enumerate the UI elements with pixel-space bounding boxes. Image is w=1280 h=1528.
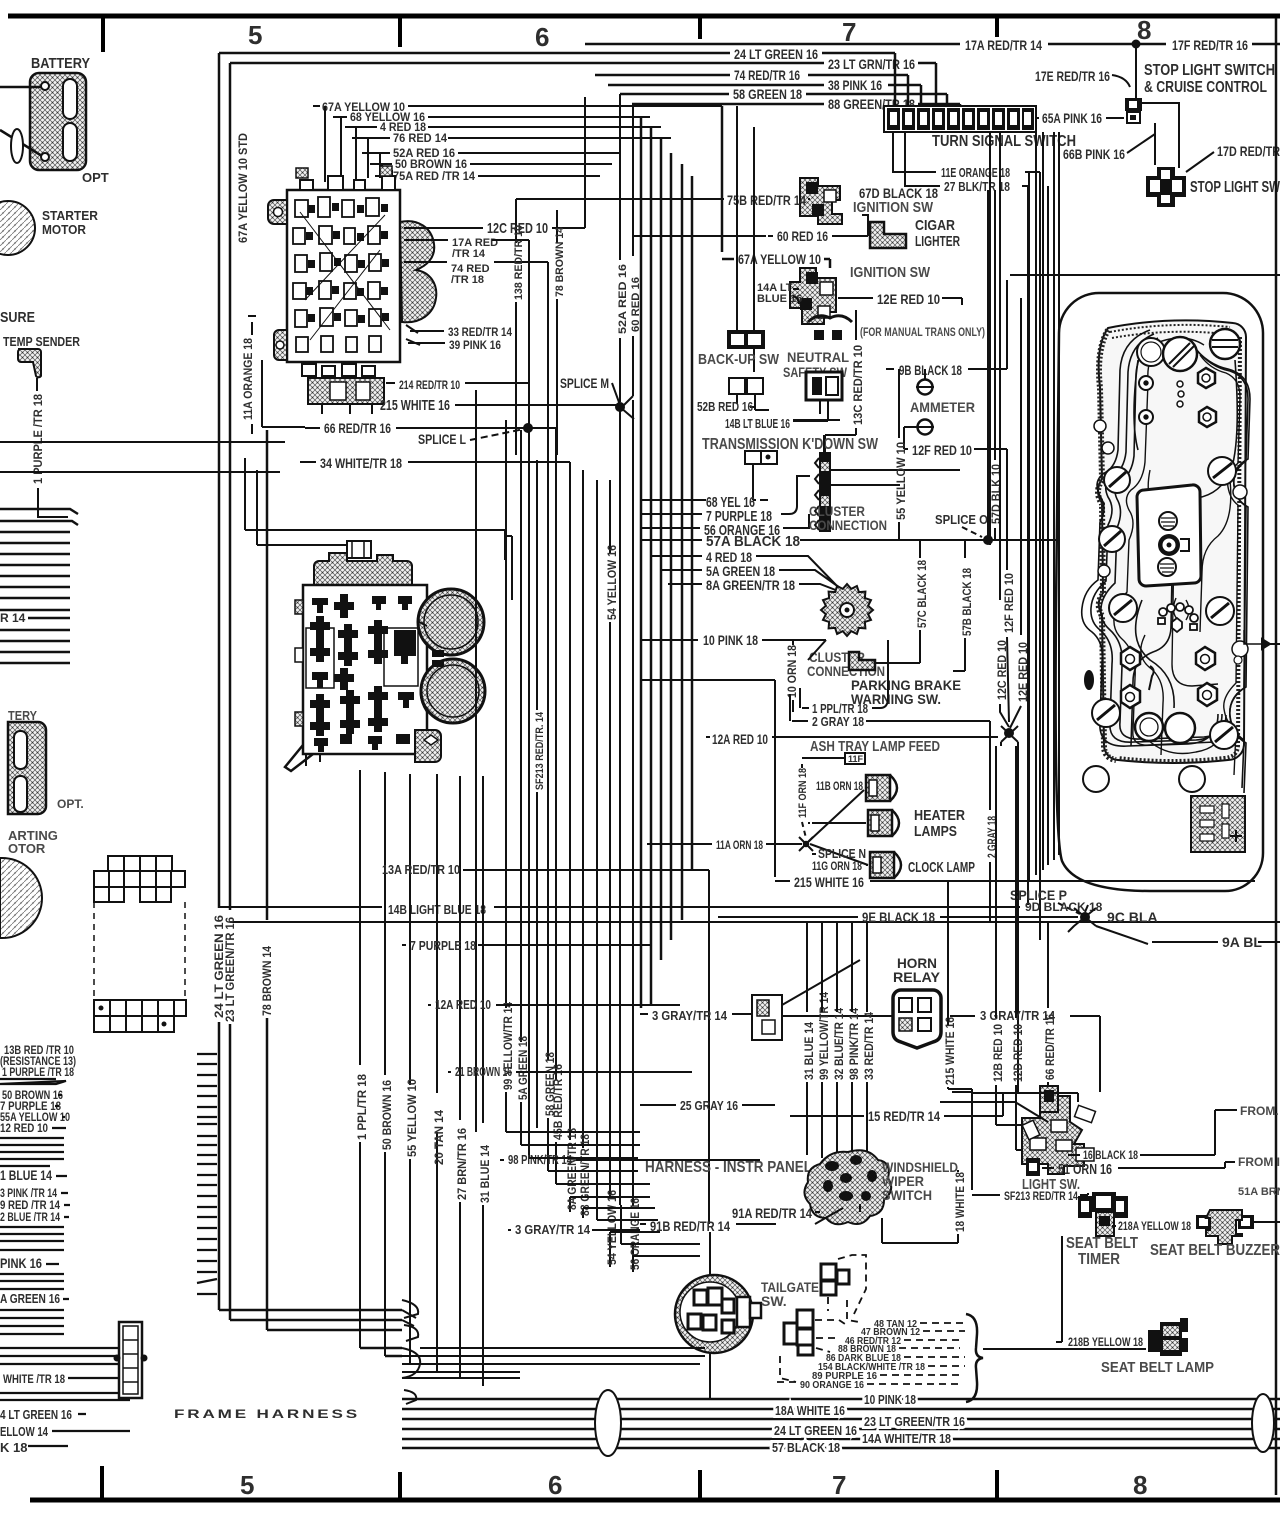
svg-text:OPT.: OPT. xyxy=(57,797,84,811)
svg-text:25 GRAY 16: 25 GRAY 16 xyxy=(680,1098,738,1113)
svg-text:12A RED 10: 12A RED 10 xyxy=(712,731,768,747)
svg-text:57 BLACK 18: 57 BLACK 18 xyxy=(772,1440,840,1455)
svg-text:6: 6 xyxy=(535,22,549,52)
left tabs xyxy=(295,600,303,614)
svg-text:SURE: SURE xyxy=(0,309,35,326)
svg-text:8: 8 xyxy=(1137,15,1151,45)
bezel outer xyxy=(1056,293,1263,891)
svg-text:5: 5 xyxy=(240,1470,254,1500)
svg-text:PINK 16: PINK 16 xyxy=(0,1255,42,1271)
svg-text:27 BRN/TR 16: 27 BRN/TR 16 xyxy=(455,1128,469,1200)
svg-text:20 TAN 14: 20 TAN 14 xyxy=(432,1110,446,1165)
svg-text:38 PINK 16: 38 PINK 16 xyxy=(828,77,882,93)
svg-text:FROM I: FROM I xyxy=(1238,1155,1280,1169)
svg-text:14A WHITE/TR 18: 14A WHITE/TR 18 xyxy=(862,1431,951,1446)
svg-text:CLOCK LAMP: CLOCK LAMP xyxy=(908,859,975,876)
svg-text:AMMETER: AMMETER xyxy=(910,399,975,415)
svg-text:3 GRAY/TR 14: 3 GRAY/TR 14 xyxy=(515,1222,591,1237)
svg-text:57B BLACK 18: 57B BLACK 18 xyxy=(960,568,974,636)
svg-text:SW.: SW. xyxy=(761,1293,787,1309)
svg-text:7: 7 xyxy=(842,17,856,47)
svg-text:12 RED 10: 12 RED 10 xyxy=(0,1121,48,1135)
fuse box 1 body xyxy=(287,190,400,362)
svg-text:OPT: OPT xyxy=(82,170,109,185)
svg-text:SPLICE L: SPLICE L xyxy=(418,431,466,447)
left ear xyxy=(268,200,287,224)
svg-text:1 BLUE 14: 1 BLUE 14 xyxy=(0,1167,52,1183)
svg-text:138 RED/TR 10: 138 RED/TR 10 xyxy=(513,225,525,300)
svg-text:215 WHITE 16: 215 WHITE 16 xyxy=(943,1017,957,1085)
clamp braces xyxy=(402,1300,420,1404)
svg-text:57A BLACK 18: 57A BLACK 18 xyxy=(706,533,800,550)
svg-text:66 RED/TR 16: 66 RED/TR 16 xyxy=(324,420,391,436)
svg-text:12E RED 10: 12E RED 10 xyxy=(877,291,940,307)
light switch xyxy=(1022,1086,1096,1176)
svg-text:78 BROWN 14: 78 BROWN 14 xyxy=(260,946,274,1016)
svg-text:32 BLUE/TR 14: 32 BLUE/TR 14 xyxy=(832,1008,846,1080)
upper mid verticals going down xyxy=(476,330,633,1272)
svg-text:STOP LIGHT SW: STOP LIGHT SW xyxy=(1190,179,1280,196)
svg-text:218B YELLOW 18: 218B YELLOW 18 xyxy=(1068,1335,1143,1349)
svg-text:55 YELLOW 10: 55 YELLOW 10 xyxy=(405,1079,419,1157)
trapezoid panel xyxy=(1137,485,1201,586)
svg-text:8: 8 xyxy=(1133,1470,1147,1500)
svg-text:31 BLUE 14: 31 BLUE 14 xyxy=(478,1145,492,1203)
svg-text:24 LT GREEN 16: 24 LT GREEN 16 xyxy=(734,46,818,62)
svg-text:BATTERY: BATTERY xyxy=(31,55,90,72)
seat belt buzzer xyxy=(1196,1210,1254,1244)
svg-text:11F: 11F xyxy=(848,754,864,764)
svg-text:60 RED 16: 60 RED 16 xyxy=(777,228,828,244)
svg-text:214 RED/TR 10: 214 RED/TR 10 xyxy=(399,378,460,392)
svg-text:58 GREEN 18: 58 GREEN 18 xyxy=(733,86,802,102)
bottom connector of fuse box 1 xyxy=(302,364,375,376)
svg-text:17E RED/TR 16: 17E RED/TR 16 xyxy=(1035,68,1110,84)
svg-text:SPLICE O: SPLICE O xyxy=(935,512,988,527)
tailgate switch xyxy=(675,1275,753,1353)
svg-text:10 PINK 18: 10 PINK 18 xyxy=(864,1392,916,1407)
svg-text:8A GREEN/TR 18: 8A GREEN/TR 18 xyxy=(706,577,795,593)
svg-text:K 18: K 18 xyxy=(0,1440,27,1455)
svg-text:FROM.: FROM. xyxy=(1240,1104,1279,1118)
left harness lines A xyxy=(0,509,78,663)
bottom-left ear xyxy=(274,330,287,360)
svg-text:SF213 RED/TR 14: SF213 RED/TR 14 xyxy=(1004,1189,1078,1203)
left vertical bundle from top labels xyxy=(641,117,692,1008)
wire 1 PURPLE/TR 18 xyxy=(36,378,38,391)
svg-text:1 PPL/TR 18: 1 PPL/TR 18 xyxy=(355,1074,369,1140)
svg-text:52B RED 16: 52B RED 16 xyxy=(697,399,753,414)
svg-text:9C BLA: 9C BLA xyxy=(1107,909,1158,925)
top gauges xyxy=(1092,329,1248,749)
svg-text:23 LT GREEN/TR 16: 23 LT GREEN/TR 16 xyxy=(223,917,237,1022)
TSS-to-cluster vertical bundle xyxy=(990,132,1059,880)
svg-text:SPLICE M: SPLICE M xyxy=(560,375,609,391)
svg-text:9A BL: 9A BL xyxy=(1222,934,1262,950)
svg-text:1 PURPLE /TR 18: 1 PURPLE /TR 18 xyxy=(31,394,45,484)
svg-text:HARNESS - INSTR PANEL: HARNESS - INSTR PANEL xyxy=(645,1159,812,1176)
svg-text:91A RED/TR 14: 91A RED/TR 14 xyxy=(732,1205,812,1221)
svg-text:78 BROWN 14: 78 BROWN 14 xyxy=(554,226,566,297)
svg-text:12E RED 10: 12E RED 10 xyxy=(1016,642,1030,702)
svg-text:67A YELLOW 10 STD: 67A YELLOW 10 STD xyxy=(236,133,250,243)
right stubs column xyxy=(197,1054,217,1294)
svg-text:54 YELLOW 16: 54 YELLOW 16 xyxy=(605,1190,619,1265)
svg-text:66B PINK 16: 66B PINK 16 xyxy=(1063,146,1125,162)
svg-text:/TR 14: /TR 14 xyxy=(452,248,486,260)
svg-text:55 YELLOW 10: 55 YELLOW 10 xyxy=(894,442,908,520)
svg-text:34 WHITE/TR 18: 34 WHITE/TR 18 xyxy=(320,455,402,471)
heater lamps xyxy=(866,775,901,878)
interior sub-boxes xyxy=(306,628,334,688)
svg-text:65A PINK 16: 65A PINK 16 xyxy=(1042,110,1102,126)
svg-text:STARTER: STARTER xyxy=(42,208,99,223)
svg-text:75A RED /TR 14: 75A RED /TR 14 xyxy=(393,169,475,183)
svg-text:57C BLACK 18: 57C BLACK 18 xyxy=(915,560,929,628)
lower hexes + circles xyxy=(1083,647,1217,792)
inner plate hatch edge band xyxy=(1098,325,1240,761)
arrow right xyxy=(1262,639,1280,649)
page border bottom xyxy=(30,1498,1280,1503)
svg-text:98 PINK/TR 14: 98 PINK/TR 14 xyxy=(847,1008,861,1080)
svg-text:R 14: R 14 xyxy=(0,611,26,625)
bottom right ear xyxy=(415,730,441,762)
svg-text:76 RED 14: 76 RED 14 xyxy=(393,131,447,145)
svg-text:11F ORN 18: 11F ORN 18 xyxy=(797,768,809,818)
svg-text:23 LT GRN/TR 16: 23 LT GRN/TR 16 xyxy=(828,56,915,72)
svg-text:99 YELLOW/TR 14: 99 YELLOW/TR 14 xyxy=(817,992,831,1080)
svg-text:ASH TRAY LAMP FEED: ASH TRAY LAMP FEED xyxy=(810,738,940,755)
stop light switch component xyxy=(1146,167,1186,207)
svg-text:13A RED/TR 10: 13A RED/TR 10 xyxy=(382,862,460,877)
svg-text:CIGAR: CIGAR xyxy=(915,217,955,234)
svg-text:3 GRAY/TR 14: 3 GRAY/TR 14 xyxy=(652,1008,728,1023)
svg-text:18A WHITE 16: 18A WHITE 16 xyxy=(775,1403,845,1418)
turn signal switch block xyxy=(884,106,1036,132)
parking brake warning sw xyxy=(849,652,875,670)
svg-text:17F RED/TR 16: 17F RED/TR 16 xyxy=(1172,37,1248,53)
svg-text:1 PURPLE /TR 18: 1 PURPLE /TR 18 xyxy=(2,1065,74,1079)
svg-text:LIGHTER: LIGHTER xyxy=(915,233,960,250)
top tabs xyxy=(300,176,395,190)
svg-text:BLUE 16: BLUE 16 xyxy=(757,293,802,305)
svg-text:11A ORN 18: 11A ORN 18 xyxy=(716,838,763,852)
tailgate connector A xyxy=(821,1264,849,1295)
seat belt lamp xyxy=(710,1232,1146,1399)
cigar lighter xyxy=(870,222,906,248)
svg-text:SEAT BELT: SEAT BELT xyxy=(1066,1235,1138,1252)
svg-text:74 RED/TR 16: 74 RED/TR 16 xyxy=(734,67,800,83)
svg-text:215 WHITE 16: 215 WHITE 16 xyxy=(794,874,864,890)
svg-text:WHITE /TR 18: WHITE /TR 18 xyxy=(3,1372,65,1386)
windshield wiper switch blob xyxy=(804,1150,891,1224)
svg-text:& CRUISE CONTROL: & CRUISE CONTROL xyxy=(1144,79,1267,96)
svg-text:FRAME HARNESS: FRAME HARNESS xyxy=(174,1407,360,1421)
left edge bump dot xyxy=(1084,670,1094,690)
svg-text:14B LT BLUE 16: 14B LT BLUE 16 xyxy=(725,416,790,431)
tailgate connector B xyxy=(784,1310,813,1355)
svg-text:24 LT GREEN 16: 24 LT GREEN 16 xyxy=(774,1423,857,1438)
svg-text:SWITCH: SWITCH xyxy=(882,1187,932,1203)
small black marks right of box xyxy=(432,650,444,657)
svg-text:6: 6 xyxy=(548,1470,562,1500)
bottom long bundle xyxy=(402,1399,1280,1448)
svg-text:90 ORANGE 16: 90 ORANGE 16 xyxy=(800,1379,864,1391)
brace xyxy=(966,1314,983,1402)
svg-text:12F RED 10: 12F RED 10 xyxy=(1002,573,1016,633)
svg-text:10 ORN 18: 10 ORN 18 xyxy=(785,645,799,698)
svg-text:66 RED/TR 16: 66 RED/TR 16 xyxy=(1043,1014,1057,1080)
svg-text:31 BLUE 14: 31 BLUE 14 xyxy=(802,1022,816,1080)
back-up switch xyxy=(737,106,754,372)
svg-text:CONNECTION: CONNECTION xyxy=(809,517,887,533)
svg-text:SEAT BELT LAMP: SEAT BELT LAMP xyxy=(1101,1359,1214,1376)
svg-text:11B ORN 18: 11B ORN 18 xyxy=(816,779,863,793)
svg-text:18 WHITE 18: 18 WHITE 18 xyxy=(953,1172,967,1232)
svg-text:2 BLUE /TR 14: 2 BLUE /TR 14 xyxy=(0,1210,60,1224)
fuse dogbones: rows xyxy=(310,594,416,752)
svg-text:5: 5 xyxy=(248,20,262,50)
svg-text:12B RED 10: 12B RED 10 xyxy=(991,1024,1005,1082)
svg-text:218A YELLOW 18: 218A YELLOW 18 xyxy=(1118,1219,1191,1233)
svg-text:33 RED/TR 14: 33 RED/TR 14 xyxy=(448,325,512,339)
svg-text:(FOR MANUAL TRANS ONLY): (FOR MANUAL TRANS ONLY) xyxy=(860,325,985,339)
svg-text:11G ORN 18: 11G ORN 18 xyxy=(812,859,862,873)
svg-text:17A RED/TR 14: 17A RED/TR 14 xyxy=(965,37,1042,53)
svg-text:OTOR: OTOR xyxy=(8,841,46,856)
svg-text:23 LT GREEN/TR 16: 23 LT GREEN/TR 16 xyxy=(864,1414,965,1429)
svg-text:4 LT GREEN 16: 4 LT GREEN 16 xyxy=(0,1407,72,1422)
svg-text:45B RED/TR 16: 45B RED/TR 16 xyxy=(551,1064,565,1140)
svg-text:67A YELLOW 10: 67A YELLOW 10 xyxy=(738,251,821,267)
battery wires xyxy=(0,86,42,89)
svg-text:SEAT BELT BUZZER: SEAT BELT BUZZER xyxy=(1150,1242,1280,1259)
right hatched blob xyxy=(400,221,436,322)
bottom hatched box xyxy=(1191,796,1245,852)
svg-text:13C RED/TR 10: 13C RED/TR 10 xyxy=(851,345,865,425)
nested corner above fuse box 2 xyxy=(245,458,505,560)
svg-text:5A GREEN 18: 5A GREEN 18 xyxy=(516,1036,530,1100)
ignition sw 1 xyxy=(800,178,842,224)
svg-text:9E BLACK 18: 9E BLACK 18 xyxy=(862,909,935,925)
svg-text:HEATER: HEATER xyxy=(914,807,965,824)
mid terminal fan xyxy=(1158,603,1198,632)
svg-text:7 PURPLE 18: 7 PURPLE 18 xyxy=(410,938,476,953)
svg-text:RELAY: RELAY xyxy=(893,969,941,985)
svg-text:IGNITION SW: IGNITION SW xyxy=(850,264,931,281)
sweeping trace bundles xyxy=(1082,330,1250,793)
svg-text:/TR 18: /TR 18 xyxy=(451,274,484,286)
svg-text:11A ORANGE 18: 11A ORANGE 18 xyxy=(241,338,255,420)
svg-text:TIMER: TIMER xyxy=(1078,1251,1120,1268)
svg-text:NEUTRAL: NEUTRAL xyxy=(787,349,849,365)
svg-text:A GREEN 16: A GREEN 16 xyxy=(0,1291,60,1306)
right circles xyxy=(418,589,484,655)
mid bundle lines continuing right xyxy=(402,1348,705,1378)
svg-text:215 WHITE 16: 215 WHITE 16 xyxy=(380,397,450,414)
screws xyxy=(1104,467,1130,493)
svg-text:88 GREEN/TR 18: 88 GREEN/TR 18 xyxy=(578,1134,592,1216)
bottom tail xyxy=(285,745,313,771)
inner plate xyxy=(1098,320,1246,763)
interior fuses xyxy=(293,197,381,352)
bundle labels (white-backed) xyxy=(772,1392,965,1455)
svg-text:50 BROWN 16: 50 BROWN 16 xyxy=(380,1080,394,1150)
bottom-left wire labels xyxy=(0,1043,76,1224)
seat belt timer xyxy=(1078,1192,1128,1236)
svg-text:12F RED 10: 12F RED 10 xyxy=(912,442,972,458)
svg-text:12D RED 10: 12D RED 10 xyxy=(1011,1024,1025,1082)
svg-text:ELLOW 14: ELLOW 14 xyxy=(0,1424,49,1439)
svg-text:91B RED/TR 14: 91B RED/TR 14 xyxy=(650,1218,730,1234)
svg-text:TRANSMISSION K'DOWN SW: TRANSMISSION K'DOWN SW xyxy=(702,436,879,453)
svg-text:75B RED/TR 14: 75B RED/TR 14 xyxy=(727,192,806,208)
svg-text:LAMPS: LAMPS xyxy=(914,823,957,840)
svg-text:9B BLACK 18: 9B BLACK 18 xyxy=(899,362,962,378)
svg-text:7: 7 xyxy=(832,1470,846,1500)
svg-text:54 YELLOW 16: 54 YELLOW 16 xyxy=(605,545,619,620)
page border top xyxy=(8,14,1280,19)
svg-text:39 PINK 16: 39 PINK 16 xyxy=(449,338,501,352)
svg-text:2 GRAY 18: 2 GRAY 18 xyxy=(812,714,864,729)
svg-text:BACK-UP SW: BACK-UP SW xyxy=(698,351,780,368)
svg-text:17D RED/TR: 17D RED/TR xyxy=(1217,143,1280,159)
svg-text:TEMP SENDER: TEMP SENDER xyxy=(3,334,80,349)
cluster connection 1 (bar) xyxy=(819,452,831,532)
svg-text:12A RED 10: 12A RED 10 xyxy=(435,997,491,1012)
extra cluster traces xyxy=(1114,338,1240,775)
svg-text:51A BRN: 51A BRN xyxy=(1238,1186,1280,1198)
svg-text:10 PINK 18: 10 PINK 18 xyxy=(703,632,758,648)
svg-text:52A RED 16: 52A RED 16 xyxy=(617,264,629,334)
relay block (checkered) xyxy=(94,856,185,902)
horizontals under cluster xyxy=(219,905,1280,922)
svg-text:16 BLACK 18: 16 BLACK 18 xyxy=(1083,1148,1138,1162)
svg-text:MOTOR: MOTOR xyxy=(42,222,87,237)
svg-text:33 RED/TR 14: 33 RED/TR 14 xyxy=(862,1012,876,1080)
svg-text:15 RED/TR 14: 15 RED/TR 14 xyxy=(868,1108,940,1124)
frame harness connector xyxy=(119,1322,142,1398)
svg-text:98 PINK/TR 14: 98 PINK/TR 14 xyxy=(508,1152,573,1167)
svg-text:21 BROWN 16: 21 BROWN 16 xyxy=(455,1064,512,1079)
svg-text:SF213 RED/TR. 14: SF213 RED/TR. 14 xyxy=(534,711,546,790)
svg-text:STOP LIGHT SWITCH: STOP LIGHT SWITCH xyxy=(1144,62,1275,79)
corner turns at left bundle bottom xyxy=(219,1310,402,1356)
svg-text:IGNITION SW: IGNITION SW xyxy=(853,199,934,216)
